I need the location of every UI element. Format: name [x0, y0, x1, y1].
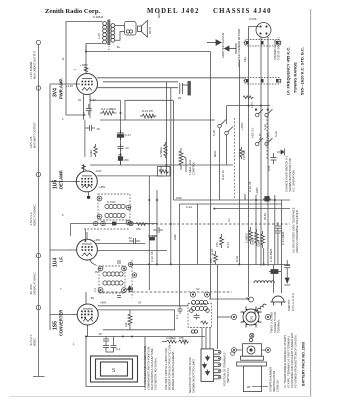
wire filament 1s5	[50, 314, 73, 316]
terminal E	[36, 305, 40, 309]
T3 trimmer 2	[122, 266, 127, 271]
wire x277	[277, 233, 279, 264]
tube 1U5 U2	[76, 171, 97, 192]
svg-text:600KC: 600KC	[33, 338, 37, 346]
svg-text:47K: 47K	[215, 242, 219, 247]
note change over switch	[285, 155, 296, 192]
wires osc to switch	[202, 265, 217, 349]
svg-text:A+ (B-): A+ (B-)	[266, 132, 270, 141]
T3 cap bottom	[117, 296, 121, 298]
resistor R13 47K	[140, 114, 157, 118]
svg-text:CODE 80: CODE 80	[276, 380, 280, 392]
svg-text:DENSER FOR ELECTROLYTIC CON-: DENSER FOR ELECTROLYTIC CON-	[168, 344, 172, 390]
svg-text:I.F.: I.F.	[59, 256, 64, 262]
wire converter to rect	[209, 298, 249, 300]
resistor R16	[243, 96, 254, 99]
svg-text:+1.4V: +1.4V	[66, 84, 73, 88]
switch feed wires	[220, 128, 227, 200]
svg-text:+67V: +67V	[149, 115, 156, 119]
resistor R17	[167, 340, 177, 343]
note electrolytic	[164, 344, 175, 390]
svg-text:SWITCH S-1: SWITCH S-1	[226, 367, 230, 383]
svg-text:+1.4V 400MW: +1.4V 400MW	[29, 61, 33, 79]
svg-text:1MEG: 1MEG	[159, 166, 163, 174]
resistor R13 47K 1W	[240, 147, 244, 159]
note voltages	[143, 345, 158, 390]
note transformer stamps	[283, 332, 298, 388]
speaker SP	[138, 21, 148, 38]
S1 comb dots	[218, 351, 220, 378]
AVC dashed bus 2	[98, 291, 232, 293]
electrolytic C11	[263, 197, 271, 202]
loop cap C2	[103, 337, 117, 353]
svg-text:AT APPL. TERMINAL A1 FIRST TER: AT APPL. TERMINAL A1 FIRST TERMINAL	[287, 335, 291, 388]
svg-text:TERMINAL: TERMINAL	[277, 319, 281, 333]
pin voltage specks	[60, 63, 106, 346]
wire filament 1u5	[50, 180, 72, 182]
output transformer T1	[103, 20, 115, 46]
right vertical buses	[239, 60, 281, 299]
note stamped number	[269, 367, 280, 392]
capacitor C13	[271, 153, 277, 164]
svg-text:40-40: 40-40	[263, 213, 267, 220]
resistor R14 4.7MEG	[164, 142, 167, 158]
svg-text:OSC.: OSC.	[183, 338, 187, 345]
svg-text:I.F. FREQUENCY 455 K.C.: I.F. FREQUENCY 455 K.C.	[286, 47, 291, 95]
svg-text:R-4 3.3MEG.: R-4 3.3MEG.	[101, 107, 117, 111]
potentiometer VOL	[179, 148, 186, 172]
switch dashed link 2	[266, 116, 268, 160]
line cord coil bottom	[254, 303, 266, 313]
AVC dashed spur	[84, 229, 130, 241]
svg-text:ALL VOLTAGES MEASURED FROM: ALL VOLTAGES MEASURED FROM	[143, 345, 147, 390]
svg-text:SIGNAL AT 600KC: SIGNAL AT 600KC	[33, 272, 37, 295]
IF can shield bottom	[244, 78, 281, 85]
wire plate bus	[103, 81, 178, 83]
svg-text:0V: 0V	[95, 270, 98, 274]
diode blob C16b	[118, 153, 122, 165]
svg-text:117V. A.C.-D.C.: 117V. A.C.-D.C.	[291, 292, 295, 311]
svg-text:TUNING RANGE: TUNING RANGE	[293, 62, 298, 93]
svg-text:UNLESS OTHERWISE SPECIFIED.: UNLESS OTHERWISE SPECIFIED.	[295, 209, 299, 253]
svg-text:SOLDER TO ADJ.: SOLDER TO ADJ.	[273, 311, 277, 333]
loop feed wires	[86, 337, 145, 387]
svg-text:R-22 1K: R-22 1K	[221, 170, 225, 180]
resistor R18	[179, 340, 189, 343]
cap to chassis C12	[274, 222, 281, 233]
battery side lug left	[232, 348, 243, 353]
svg-text:COMMON RETURN TO POINTS IN-: COMMON RETURN TO POINTS IN-	[147, 346, 151, 390]
switch wafer S1	[201, 349, 214, 382]
wire cathode	[97, 87, 179, 89]
svg-text:.02: .02	[128, 236, 132, 240]
AVC arrow	[128, 286, 132, 292]
svg-text:0.1: 0.1	[82, 112, 86, 116]
svg-text:ADAPTER CHASSIS: ADAPTER CHASSIS	[221, 33, 225, 58]
X1 top terminal	[249, 297, 254, 302]
wire plate lead	[66, 22, 103, 116]
svg-text:C-20 40MF: C-20 40MF	[269, 248, 273, 262]
svg-text:CHANGE OVER SWITCH S-1: CHANGE OVER SWITCH S-1	[285, 155, 289, 192]
tube 3V4 U1	[77, 74, 98, 95]
svg-text:50L6: 50L6	[157, 12, 161, 18]
svg-text:C-4: C-4	[116, 347, 121, 351]
wire plate lead 2	[86, 44, 103, 67]
svg-text:A-15: A-15	[97, 33, 101, 39]
IF transformer T3 box	[99, 266, 125, 293]
wire 1u5 plate	[97, 175, 164, 177]
note resistors tolerance	[292, 207, 300, 253]
svg-text:-0.6V: -0.6V	[95, 169, 102, 173]
cap with chassis arrow	[284, 260, 290, 278]
tube 1S5 U4	[77, 304, 98, 325]
osc transformer box	[188, 304, 212, 328]
svg-text:-1.5V A.V.C.: -1.5V A.V.C.	[29, 211, 33, 226]
svg-text:455KC TO 600KC: 455KC TO 600KC	[33, 204, 37, 226]
svg-text:SHOWN IN DOTTED LINES.: SHOWN IN DOTTED LINES.	[192, 358, 196, 393]
wire left bus	[49, 84, 51, 330]
mid vertical bus pair	[149, 82, 173, 290]
svg-text:2.2MEG: 2.2MEG	[245, 233, 249, 243]
svg-text:49-75: 49-75	[148, 27, 152, 34]
svg-text:1MEG: 1MEG	[89, 149, 93, 157]
switch S1B	[218, 120, 233, 135]
B plus resistor bank R10	[249, 227, 253, 244]
wire to socket lug	[217, 316, 231, 318]
value labels group	[150, 124, 278, 262]
wire y341	[162, 341, 167, 343]
IF transformer T2 box	[98, 194, 130, 220]
svg-text:AS VIEWED FROM BOTTOM OF CHASS: AS VIEWED FROM BOTTOM OF CHASSIS.	[294, 334, 298, 388]
T3 primary winding	[103, 272, 123, 276]
capacitor C9	[85, 125, 95, 131]
T3 cap top	[117, 261, 121, 263]
svg-text:+45V: +45V	[94, 238, 101, 242]
wire y200	[174, 199, 291, 201]
oval end circles	[245, 41, 281, 82]
svg-text:S-7417: S-7417	[107, 200, 116, 204]
chassis ground arrow 2	[225, 43, 237, 54]
wire y264	[130, 263, 290, 265]
resistor R7 22K	[214, 251, 218, 264]
svg-text:350V: 350V	[243, 194, 247, 200]
AC plug wires	[274, 265, 282, 293]
resistor R15	[136, 223, 148, 226]
wire top frame	[86, 45, 211, 52]
svg-text:VOLTMETER. NO SIGNAL.: VOLTMETER. NO SIGNAL.	[154, 357, 158, 390]
svg-text:0.1: 0.1	[227, 218, 231, 222]
svg-text:IDENTIFICATION: IDENTIFICATION	[272, 371, 276, 392]
wafer socket X1	[243, 309, 259, 325]
svg-text:MED.: MED.	[213, 150, 217, 157]
battery leader line	[252, 386, 268, 388]
capacitor C14	[86, 104, 92, 115]
capacitor C16	[117, 144, 123, 151]
svg-text:NECESSARY TO ADD PLATE: NECESSARY TO ADD PLATE	[188, 357, 192, 393]
capacitor C9	[103, 337, 109, 344]
svg-text:CLOCKWISE AND ADJACENT TURNED: CLOCKWISE AND ADJACENT TURNED NOT	[290, 332, 294, 388]
svg-text:0V: 0V	[78, 98, 81, 102]
terminal B	[36, 86, 40, 90]
svg-text:R-21: R-21	[226, 242, 230, 248]
osc trimmer G1	[190, 292, 195, 297]
variable cap C1b	[132, 273, 136, 277]
tube 1U4 U3	[77, 239, 98, 260]
wire y204	[180, 203, 282, 205]
AVC bus dashed	[143, 223, 290, 225]
svg-text:250: 250	[124, 158, 129, 162]
svg-text:STAMPED NUMBER: STAMPED NUMBER	[269, 367, 273, 392]
svg-text:T-1: T-1	[107, 46, 111, 50]
wire filament 1u4	[50, 249, 68, 251]
svg-text:C-17: C-17	[125, 133, 131, 137]
resistor box R2	[158, 167, 171, 177]
svg-text:220K: 220K	[257, 241, 261, 247]
battery pack assembly	[237, 338, 267, 391]
svg-text:ALL RESISTORS ±20% TOLERANCE: ALL RESISTORS ±20% TOLERANCE	[292, 207, 296, 253]
svg-text:POSITION OF TERMINALS: POSITION OF TERMINALS	[223, 352, 227, 386]
svg-text:3.3MEG: 3.3MEG	[166, 336, 176, 340]
svg-text:Z8: Z8	[247, 385, 251, 389]
svg-text:TOP OF SOCKET): TOP OF SOCKET)	[277, 37, 281, 60]
battery side lug right	[262, 348, 271, 353]
svg-text:0.05: 0.05	[267, 165, 271, 171]
svg-text:117Z6: 117Z6	[249, 17, 257, 21]
svg-text:R-13 47K: R-13 47K	[142, 109, 154, 113]
wire x179	[179, 204, 181, 306]
svg-text:USE ONLY ZENITH S-18975 CON-: USE ONLY ZENITH S-18975 CON-	[164, 348, 168, 390]
converter plate wire	[86, 306, 205, 337]
svg-text:LINK: LINK	[173, 234, 177, 240]
trimmer circle A	[93, 221, 98, 226]
terminal C	[36, 172, 40, 176]
svg-text:CHASSIS 4J40: CHASSIS 4J40	[213, 8, 272, 15]
AC plug P1	[271, 296, 286, 306]
crossed terminal	[129, 221, 133, 225]
T3 trimmer 3	[98, 288, 103, 293]
socket terminal notes	[270, 311, 281, 333]
resistor R11	[255, 229, 259, 246]
switch S1C	[255, 109, 272, 117]
S1 contacts	[203, 355, 210, 375]
svg-text:-8V: -8V	[90, 296, 94, 300]
svg-text:0V: 0V	[138, 301, 141, 305]
capacitor C5 with ground bar	[180, 82, 191, 96]
note dotted lines	[188, 357, 196, 393]
T2 trimmer 3	[97, 214, 102, 219]
osc trimmer dots	[190, 309, 210, 313]
note switch position	[223, 352, 231, 386]
X1 side lug right	[265, 314, 270, 319]
capacitor C7	[129, 238, 140, 244]
osc left cap C1	[178, 306, 183, 314]
svg-text:BATTERY PACK NO. Z809: BATTERY PACK NO. Z809	[302, 342, 306, 386]
wire bus x208	[210, 52, 212, 300]
page bottom edge	[10, 396, 311, 398]
T3 trimmer 1	[98, 266, 103, 271]
misc value labels	[61, 12, 267, 345]
svg-text:C-22 .05: C-22 .05	[150, 251, 154, 262]
svg-text:4.7MEG: 4.7MEG	[159, 147, 163, 157]
svg-text:S: S	[112, 368, 115, 374]
svg-text:+85V: +85V	[99, 185, 106, 189]
svg-text:C-23 .05: C-23 .05	[248, 181, 252, 192]
1U4 grid wires	[87, 244, 167, 262]
svg-text:B-: B-	[61, 57, 65, 60]
switch S1D	[255, 138, 272, 146]
svg-text:CONTROL: CONTROL	[192, 161, 196, 175]
svg-text:1 MEG. VOL.: 1 MEG. VOL.	[188, 159, 192, 175]
osc bottom coil	[191, 330, 197, 333]
resistor R11 1MEG	[94, 144, 97, 157]
svg-text:C-21 40MF: C-21 40MF	[281, 231, 285, 245]
X1 tabs	[241, 307, 262, 328]
svg-text:1R5: 1R5	[250, 316, 254, 321]
battery voltage rail	[33, 45, 45, 377]
svg-text:S-1C: S-1C	[274, 131, 278, 137]
switch dashed link	[233, 118, 235, 198]
wire filament 3v4	[50, 83, 77, 85]
electrolytic C17	[117, 130, 123, 140]
T2 secondary winding	[105, 213, 125, 217]
svg-text:C-1: C-1	[175, 314, 179, 319]
svg-text:PWR.AMP.: PWR.AMP.	[59, 78, 64, 99]
coupling cap dark	[112, 222, 116, 226]
chassis ground arrow 1	[207, 40, 221, 45]
speaker voice coil box	[115, 22, 136, 41]
wire y208	[214, 208, 290, 210]
svg-text:+105V: +105V	[255, 187, 259, 195]
wire x197	[197, 204, 199, 264]
svg-text:B+: B+	[117, 45, 121, 49]
X1 bottom terminal	[250, 333, 254, 337]
svg-text:CONVERTER: CONVERTER	[59, 310, 64, 336]
svg-text:MAX.WATT OUTPUT: MAX.WATT OUTPUT	[33, 122, 37, 148]
svg-text:ADJ. A-1: ADJ. A-1	[251, 127, 255, 138]
svg-text:22K: 22K	[124, 322, 128, 327]
B+ area labels	[235, 102, 285, 262]
svg-text:MAX.UNDIST.OUTPUT: MAX.UNDIST.OUTPUT	[33, 51, 37, 79]
rectifier tube V5 top right	[256, 23, 271, 38]
terminal circle	[231, 352, 235, 356]
svg-text:I.F. TRANSFORMER NUMERICAL STA: I.F. TRANSFORMER NUMERICAL STAMPS	[283, 335, 287, 388]
svg-text:S-1A: S-1A	[263, 124, 267, 130]
wire box top	[125, 100, 173, 120]
svg-text:+85V: +85V	[100, 301, 107, 305]
svg-text:SEL.: SEL.	[243, 56, 247, 62]
page right border	[310, 9, 312, 396]
resistor R12	[261, 231, 265, 248]
svg-text:-6.7V A.T.: -6.7V A.T.	[29, 334, 33, 346]
IF can shield top	[244, 40, 281, 47]
T2 primary winding	[105, 204, 125, 208]
svg-text:C-24: C-24	[186, 205, 192, 209]
svg-text:DICATED WITH A VACUUM TUBE: DICATED WITH A VACUUM TUBE	[150, 348, 154, 390]
svg-text:47K: 47K	[136, 227, 141, 231]
T3 secondary winding	[103, 281, 123, 285]
osc coil winding	[191, 306, 207, 310]
T3 trimmer 4	[122, 288, 127, 293]
osc trimmer G2	[204, 292, 209, 297]
svg-text:MODEL J402: MODEL J402	[147, 8, 200, 15]
svg-text:Zenith Radio Corp.: Zenith Radio Corp.	[45, 8, 100, 15]
terminal D	[36, 253, 40, 257]
svg-text:535—1620 K.C. STD. B.C.: 535—1620 K.C. STD. B.C.	[300, 47, 305, 95]
svg-text:+105V: +105V	[80, 63, 88, 67]
svg-text:9 WATTS: 9 WATTS	[287, 299, 291, 311]
junction dots bottom	[85, 336, 133, 338]
svg-text:+67V A.B.: +67V A.B.	[29, 136, 33, 148]
svg-text:.01: .01	[125, 146, 129, 150]
osc cap C10	[194, 314, 200, 320]
svg-text:S-1B: S-1B	[212, 130, 216, 136]
svg-text:+110V: +110V	[240, 122, 244, 130]
resistor R8	[128, 310, 132, 330]
svg-text:DENSER FOR REPLACEMENT.: DENSER FOR REPLACEMENT.	[171, 351, 175, 390]
svg-text:1.4V: 1.4V	[90, 98, 96, 102]
wire x226	[226, 106, 228, 124]
capacitor C6	[153, 227, 163, 233]
T2 trimmer 2	[126, 205, 131, 210]
wire rect to bus	[249, 27, 269, 298]
capacitor C8 dark	[148, 236, 156, 240]
resistor R4 3.3MEG	[100, 111, 117, 115]
terminal A	[36, 40, 40, 44]
wire y105	[227, 105, 271, 107]
T2 trimmer 1	[97, 196, 102, 201]
AVC row wire	[71, 224, 157, 237]
osc resistor R9	[201, 321, 209, 324]
converter ant coil	[191, 300, 207, 304]
X1 side lug left	[231, 314, 236, 319]
svg-text:B+ B-: B+ B-	[258, 133, 262, 140]
wire grid corner	[85, 100, 233, 165]
svg-text:A.C. OPERATION.: A.C. OPERATION.	[292, 169, 296, 192]
resistor R6 47K	[220, 234, 224, 248]
svg-text:1MEG: 1MEG	[251, 237, 255, 245]
svg-text:.05: .05	[96, 127, 100, 131]
svg-text:G2: G2	[196, 287, 200, 291]
wire screen	[97, 77, 246, 79]
svg-text:-8V OSC.: -8V OSC.	[29, 283, 33, 295]
svg-text:22K: 22K	[209, 258, 213, 263]
line cord coil top	[254, 281, 274, 283]
svg-text:T-2: T-2	[93, 288, 97, 292]
svg-text:SHOWN IN POSITION FOR: SHOWN IN POSITION FOR	[288, 158, 292, 192]
note watts	[287, 292, 295, 311]
trimmer circle B	[101, 221, 106, 226]
svg-text:25: 25	[178, 96, 181, 100]
svg-text:LINK: LINK	[176, 196, 182, 200]
junction	[213, 208, 215, 210]
svg-text:47K 1W: 47K 1W	[242, 150, 246, 160]
svg-text:.05: .05	[98, 332, 102, 336]
svg-text:DET.AMP.: DET.AMP.	[59, 170, 64, 189]
chassis arrow 3	[277, 149, 285, 156]
svg-text:117V: 117V	[250, 102, 254, 108]
svg-text:R-19: R-19	[235, 256, 239, 262]
svg-text:S-19644: S-19644	[93, 15, 104, 19]
gang capacitor dashed link	[131, 260, 133, 298]
variable cap C1c	[128, 287, 132, 291]
electrolytic can	[269, 270, 281, 274]
S1 terminal comb	[214, 351, 221, 379]
variable cap C1a	[128, 262, 132, 266]
wire b minus	[100, 119, 215, 121]
T2 trimmer 4	[126, 220, 131, 225]
svg-text:R-20: R-20	[210, 249, 214, 255]
loop antenna L1	[91, 356, 138, 382]
